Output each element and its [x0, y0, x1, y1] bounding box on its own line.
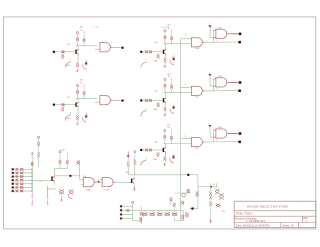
wire vertical feed gate upper G1: [79, 160, 81, 179]
wire X2 vertical join: [132, 203, 134, 218]
diode right leg of Q1: [85, 62, 88, 65]
wire diode to base of Q4: [148, 99, 162, 101]
diode D2 on rail: [151, 210, 153, 212]
transistor Q6 collector/emitter strokes: [164, 147, 166, 152]
resistor pull-up (right) of Q2: [83, 84, 85, 91]
wire vertical to resistor network: [197, 175, 199, 209]
wire to ground of Q3: [165, 63, 167, 65]
wire IC1D output to pad: [229, 81, 238, 83]
transistor Q7 collector/emitter strokes: [53, 176, 55, 181]
wire pull-ups to collector rail Q7: [59, 164, 61, 169]
wire IC1A output to pad: [205, 41, 239, 43]
svg-text:IC2B: IC2B: [105, 189, 110, 191]
node input pad of Q3: [140, 51, 142, 53]
wire IC1D upper input stub: [213, 78, 216, 80]
junction dot net of IC1B: [209, 25, 211, 27]
transistor Q1 collector/emitter strokes: [77, 49, 79, 54]
wire resistor bottoms to collector rail: [164, 88, 166, 93]
component left of network top: [187, 189, 191, 193]
resistor pull-up (right) of Q1: [83, 31, 85, 38]
wire row 5 to bus: [14, 183, 16, 185]
AND gate IC2D: [216, 129, 227, 138]
wire resistor bottoms to collector rail: [77, 94, 79, 99]
wire diode to rail: [130, 209, 140, 211]
junction circle row 7 on bus: [31, 190, 33, 192]
svg-text:4: 4: [216, 140, 217, 142]
wire gate output of Q1: [113, 46, 121, 49]
svg-text:Date: 2/24/2011 10:25:45 PM: Date: 2/24/2011 10:25:45 PM: [236, 223, 270, 227]
power VCC symbol Q8 right branch: [134, 151, 136, 153]
wire row 2 to bus: [14, 172, 16, 174]
hook curve Q7: [68, 194, 72, 199]
wire collector rail Q8 to output dot: [128, 174, 187, 176]
svg-text:1k: 1k: [80, 29, 82, 31]
wire to ground of Q1: [77, 67, 79, 69]
svg-text:C-CS-MIBU-B-1: C-CS-MIBU-B-1: [246, 219, 266, 223]
diode branch x141 lower: [139, 218, 142, 221]
wire IC1C output to pad: [205, 90, 239, 92]
ground arrow chain 2a: [47, 186, 49, 197]
transistor Q3 collector/emitter strokes: [164, 49, 166, 54]
wire diode to base of Q2: [64, 104, 75, 106]
junction circle row 3 on bus: [31, 176, 33, 178]
wire collector drop: [164, 144, 166, 148]
transistor Q4 collector/emitter strokes: [164, 98, 166, 103]
wire emitter down of Q2: [77, 108, 79, 116]
wire emitter Q8: [133, 184, 135, 187]
node output pad of Q1: [122, 47, 124, 49]
node junction pad mid-bottom: [192, 208, 194, 210]
ground arrow of Q2: [76, 121, 78, 124]
diode right leg of Q2: [85, 114, 88, 117]
resistor above rail x172: [170, 198, 173, 202]
resistor R27 of input row 7: [20, 190, 23, 192]
ground arrow chain 2b: [47, 200, 49, 203]
title block outline: [234, 201, 316, 227]
diode D4 on rail: [166, 210, 168, 212]
diode on vertical feed: [77, 161, 80, 165]
diode input of Q3: [145, 51, 148, 54]
svg-text:1k: 1k: [168, 27, 170, 29]
ground arrow network: [210, 219, 212, 221]
wire stub above rail x216: [215, 183, 217, 187]
AND gate IC2C: [191, 137, 202, 146]
transistor Q6 base bar: [163, 148, 164, 152]
wire collector drop: [165, 92, 167, 98]
resistor pull-up (right) of Q4: [171, 78, 173, 85]
svg-text:IC2C: IC2C: [195, 148, 200, 150]
wire collector drop: [77, 46, 79, 50]
wire stub diode 5: [174, 216, 176, 221]
ground arrow Q8: [133, 186, 135, 189]
connector X1 pin 2 pad: [12, 172, 14, 174]
wire IC1B output to pad: [229, 33, 238, 35]
resistor branch left upper: [37, 142, 40, 147]
diode base input of Q2: [62, 103, 64, 106]
wire base Q7 from bus: [32, 180, 51, 182]
diode D16 of input row 6: [16, 186, 19, 188]
wire net stub tick of IC1B: [208, 25, 212, 27]
resistor branch x141: [140, 206, 142, 211]
wire driver to IC1A lower input: [164, 43, 192, 45]
connector X1 pin 7 pad: [12, 190, 14, 192]
hook curve right of Q1: [82, 64, 86, 69]
wire into gate 1 upper input: [80, 178, 84, 180]
diode right leg of Q4: [172, 106, 175, 109]
diode hanging x186: [186, 210, 188, 212]
diode input of Q4: [145, 99, 148, 102]
junction circle row 5 on bus: [31, 183, 33, 185]
svg-text:IC1A: IC1A: [195, 47, 200, 50]
transistor Q8 collector/emitter strokes: [132, 178, 134, 183]
transistor Q2 base bar: [75, 103, 76, 107]
transistor Q8 base bar: [131, 179, 132, 183]
node output pad A (row IC1C): [239, 81, 242, 84]
transistor Q7 base bar: [51, 176, 52, 181]
svg-text:IC1C: IC1C: [195, 97, 200, 99]
diode X2 pin2: [126, 209, 129, 211]
ground arrow chain 1b: [31, 199, 33, 204]
resistor emitter of Q4: [164, 107, 167, 111]
wire to ground of Q2: [77, 120, 79, 122]
AND gate IC1D: [216, 78, 227, 87]
resistor pull-up left Q7: [59, 153, 61, 160]
wire driver to IC2C lower input: [164, 143, 192, 145]
wire red stub to junction pad: [190, 208, 192, 210]
diode below input of Q4: [157, 103, 160, 107]
resistor emitter of Q2: [76, 116, 79, 120]
diode emitter right Q7: [69, 190, 74, 195]
emitter hook curve of Q3: [141, 62, 146, 67]
wire vertical tie to IC2D: [212, 130, 214, 142]
node input pad of Q4: [140, 99, 142, 101]
resistor pull-up (left) of Q1: [76, 38, 79, 41]
wire network top rail: [198, 186, 218, 188]
AND gate IC1A: [191, 38, 202, 47]
node output pad B (row IC1A): [238, 41, 241, 44]
wire gate lower stub of Q1: [95, 48, 100, 50]
title block REV divider: [301, 216, 303, 222]
resistor emitter of Q3: [164, 58, 167, 62]
wire long vertical net bus: [180, 39, 182, 211]
svg-text:IC2D: IC2D: [218, 127, 223, 129]
component lower on bus: [181, 215, 184, 220]
connector X1 pin 6 pad: [12, 187, 14, 189]
wire net stub vertical of IC1B: [209, 26, 211, 38]
wire IC2D lower input stub: [210, 136, 213, 138]
wire IC2C upper input feed: [181, 138, 192, 140]
resistor x216 top: [215, 189, 219, 194]
wire collector Q8: [134, 175, 136, 179]
wire resistor bottoms to collector rail: [164, 39, 166, 44]
power VCC circle X2: [132, 201, 134, 203]
transistor Q1 base bar: [75, 50, 76, 54]
wire IC1D lower input stub: [210, 85, 213, 87]
emitter hook curve of Q4: [141, 111, 146, 116]
AND gate IC1C: [191, 86, 202, 95]
diode base input of Q1: [62, 51, 64, 54]
node input pad of Q1: [53, 51, 55, 53]
junction circle row 6 on bus: [31, 187, 33, 189]
diode below input of Q1: [61, 54, 64, 58]
svg-text:2: 2: [185, 136, 186, 138]
emitter hook curve of Q6: [141, 161, 146, 166]
wire X2 pin1: [122, 205, 133, 207]
node input pad of Q2: [53, 104, 55, 106]
connector X1 pin 3 pad: [12, 176, 14, 178]
diode D17 of input row 7: [16, 190, 19, 192]
diode base input of Q6: [149, 149, 151, 152]
svg-text:IC1B: IC1B: [218, 27, 223, 29]
wire net stub tick of IC1D: [208, 73, 212, 75]
node input pad of Q6: [140, 149, 142, 151]
connector X2 pin 4 pad: [120, 218, 122, 220]
svg-text:IC3A: IC3A: [94, 26, 99, 29]
diode diag x221: [219, 193, 224, 199]
ground arrow chain 1a: [31, 194, 33, 196]
wire net stub vertical of IC1D: [209, 74, 211, 86]
power VCC symbol for Q3 stage: [164, 30, 166, 32]
resistor emitter of Q6: [163, 156, 166, 160]
node Q8 output dot: [187, 174, 189, 176]
wire X2 pin4: [122, 217, 133, 219]
connector X1 pin 1 pad: [12, 168, 14, 170]
wire input to diode of Q4: [142, 99, 144, 101]
resistor R23 of input row 3: [20, 175, 23, 177]
diode D13 of input row 3: [16, 175, 19, 177]
resistor pull-up (right) of Q3: [171, 29, 173, 36]
node output pad A (row IC2C): [239, 132, 242, 135]
junction circle row 4 on bus: [31, 179, 33, 181]
wire input to diode of Q1: [55, 51, 62, 53]
wire net stub tick of IC2D: [208, 124, 212, 126]
svg-text:IC2A: IC2A: [86, 188, 91, 191]
wire input to diode of Q6: [142, 149, 144, 151]
hook curve right of Q4: [170, 108, 174, 113]
transistor Q2 collector/emitter strokes: [77, 102, 79, 107]
wire collector to gate of Q2: [76, 98, 97, 100]
wire branch left middle: [38, 147, 40, 152]
node output pad B (row IC1C): [238, 90, 241, 93]
AND gate IC1B: [216, 29, 227, 38]
wire gate1 output to gate2: [97, 181, 102, 183]
svg-text:1k: 1k: [167, 127, 169, 129]
wire net stub vertical of IC2D: [209, 125, 211, 137]
resistor pull-up (right) of Q6: [170, 129, 172, 136]
hook curve right of Q2: [82, 117, 86, 122]
diode D11 of input row 1: [16, 168, 19, 170]
svg-text:1k: 1k: [168, 76, 170, 78]
wire IC2D upper input stub: [213, 129, 216, 131]
wire gate output of Q2: [113, 99, 121, 101]
resistor R26 of input row 6: [20, 186, 23, 188]
junction dot between gates: [98, 181, 100, 183]
connector X2 pin 3 pad: [120, 214, 122, 216]
svg-text:Sheet: 1/1: Sheet: 1/1: [282, 223, 294, 227]
power VCC symbol for Q6 stage: [164, 129, 166, 131]
wire output dot to resistor network: [190, 174, 198, 176]
resistor pull-up left Q8: [127, 159, 129, 161]
resistor pull-up (left) of Q2: [76, 91, 79, 94]
wire resistor bottoms to collector rail: [164, 139, 166, 144]
diode D1 on rail: [144, 210, 146, 212]
wire collector drop Q7: [54, 168, 56, 176]
ground arrow Q7: [61, 198, 63, 199]
wire stub above rail x210: [210, 183, 212, 187]
svg-text:2: 2: [185, 85, 186, 87]
wire vertical tie to IC1D: [212, 79, 214, 91]
wire to ground of Q6: [164, 161, 166, 163]
wire stub at transistor body: [175, 192, 191, 194]
svg-text:1k: 1k: [213, 184, 215, 186]
wire branch left bottom: [38, 158, 40, 167]
svg-text:REV:: REV:: [303, 218, 309, 220]
resistor R21 of input row 1: [20, 168, 23, 170]
wire X2 down to ground rail: [132, 218, 134, 221]
wire input to diode of Q2: [55, 104, 62, 106]
junction dot Q7 collector: [70, 175, 72, 177]
resistor chain x210 lower: [209, 201, 212, 206]
wire X2 pin2 to diode: [122, 209, 126, 211]
wire IC1B lower input stub: [210, 36, 213, 38]
svg-text:4: 4: [216, 88, 217, 90]
diode right leg of Q3: [172, 57, 175, 60]
wire long vertical net bus lower: [180, 210, 182, 220]
wire emitter down of Q3: [165, 55, 167, 58]
wire input to diode of Q3: [142, 51, 144, 53]
svg-text:ANODE SELECTOR PCBA: ANODE SELECTOR PCBA: [247, 205, 288, 209]
ground arrow of Q6: [164, 162, 166, 165]
wire row 6 to bus: [14, 186, 16, 188]
svg-text:1k: 1k: [80, 82, 82, 84]
transistor Q4 base bar: [163, 98, 164, 102]
diode right leg of Q6: [172, 155, 175, 158]
transistor body circle on bus: [182, 194, 185, 197]
wire to ground of Q4: [165, 111, 167, 113]
resistor pull-up (left) of Q6: [163, 135, 166, 138]
title block row separator 3: [234, 222, 316, 224]
wire diode to base of Q1: [64, 51, 75, 53]
wire resistor bottoms to collector rail: [77, 41, 79, 46]
wire collector drop: [165, 44, 167, 50]
resistor pull-up right Q7: [66, 152, 68, 161]
wire emitter down of Q6: [164, 153, 166, 156]
wire IC1B upper input stub: [213, 29, 216, 31]
wire gate2 upper stub: [100, 178, 103, 180]
wire X2 pin3: [122, 213, 133, 215]
transistor Q3 base bar: [163, 50, 164, 54]
wire IC2C output to pad: [205, 141, 239, 143]
wire chain2 top: [48, 188, 56, 190]
wire gate1 lower stub: [81, 184, 84, 186]
power VCC symbol for Q2 stage: [76, 85, 78, 87]
wire emitter down Q7: [54, 182, 56, 186]
ground arrow of Q1: [76, 69, 78, 72]
node output pad B (row IC2C): [238, 141, 241, 144]
title block sheet divider 2: [298, 223, 300, 228]
connector X2 pin 1 pad: [120, 205, 122, 207]
resistor branch left lower: [37, 152, 40, 158]
diode D15 of input row 5: [16, 183, 19, 185]
wire junction pad to vertical: [194, 208, 198, 210]
power VCC symbol for Q1 stage: [76, 32, 78, 34]
power arrow down Q8 left branch: [127, 152, 129, 156]
svg-text:2: 2: [185, 36, 186, 38]
hook curve right of Q3: [170, 60, 174, 65]
junction circle row 1 on bus: [31, 169, 33, 171]
connector X1 pin 5 pad: [12, 183, 14, 185]
wire rail bottom: [175, 220, 183, 222]
emitter hook curve of Q1: [65, 62, 70, 67]
resistor R25 of input row 5: [20, 183, 23, 185]
wire rail stub down right: [182, 210, 184, 220]
svg-text:4: 4: [216, 40, 217, 42]
op-amp style AND gate buffer IC3 cell 2: [100, 96, 111, 105]
title block sheet divider: [280, 223, 282, 228]
wire emitter down of Q1: [77, 55, 79, 63]
resistor R24 of input row 4: [20, 179, 23, 181]
wire main resistor rail: [140, 209, 183, 211]
wire pull-ups to collector rail Q8: [127, 167, 129, 175]
resistor R22 of input row 2: [20, 172, 23, 174]
wire IC2D output to pad: [229, 133, 238, 135]
ground arrow of Q3: [164, 64, 166, 67]
wire row 4 to bus: [14, 179, 16, 181]
diode below input of Q2: [61, 107, 64, 111]
junction dot network top: [210, 186, 212, 188]
resistor below top rail x210: [210, 187, 212, 192]
svg-text:PCB: TODO: PCB: TODO: [236, 211, 253, 215]
wire gate2 output to Q8 base: [116, 181, 131, 183]
wire gate lower stub of Q2: [95, 101, 100, 103]
diode base input of Q3: [149, 51, 151, 54]
power VCC circle branch left: [38, 136, 40, 138]
power VCC symbol for Q4 stage: [164, 78, 166, 80]
wire diode to base of Q6: [148, 149, 162, 151]
diode D12 of input row 2: [16, 172, 19, 174]
ground mark branch x141: [140, 220, 142, 223]
wire collector to gate rail Q7: [55, 175, 80, 177]
hook curve right of Q6: [170, 158, 174, 163]
diode base input of Q4: [149, 99, 151, 102]
junction dot net of IC1D: [209, 74, 211, 76]
wire driver to IC1C lower input: [164, 91, 192, 93]
wire vertical tie to IC1B: [212, 30, 214, 42]
AND gate IC2B: [102, 178, 113, 187]
svg-text:5: 5: [209, 72, 210, 74]
resistor pull-up right Q8: [134, 153, 136, 159]
diode input of Q6: [145, 149, 148, 152]
wire row 7 to bus: [14, 190, 16, 192]
connector X1 pin 4 pad: [12, 179, 14, 181]
node output pad A (row IC1A): [239, 33, 242, 36]
emitter hook curve of Q2: [65, 115, 70, 120]
title block row separator 1: [234, 210, 316, 212]
resistor emitter Q7: [59, 190, 64, 195]
wire collector drop: [77, 99, 79, 103]
connector X2 pin 2 pad: [120, 209, 122, 211]
resistor emitter of Q1: [76, 63, 79, 67]
wire emitter down of Q4: [165, 103, 167, 106]
wire row 1 to bus: [14, 168, 16, 170]
wire collector to gate of Q1: [76, 45, 97, 47]
resistor below top rail x197: [197, 187, 199, 192]
AND gate IC2A: [83, 178, 94, 187]
wire diode to base of Q3: [148, 51, 162, 53]
wire input bus vertical: [31, 156, 33, 194]
wire IC1A upper input feed: [181, 38, 192, 40]
diode on input bus: [31, 162, 34, 165]
